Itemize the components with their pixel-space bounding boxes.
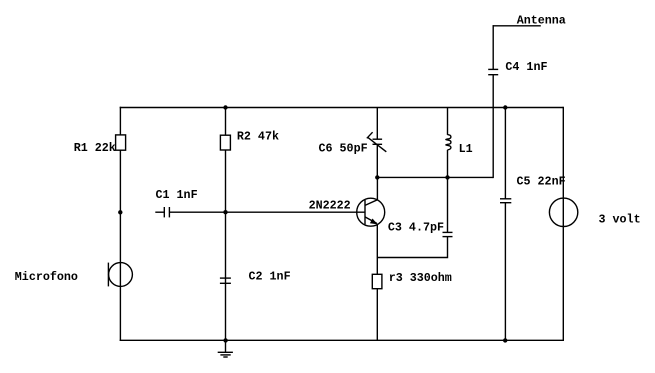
- junction node on left rail: [118, 210, 122, 214]
- svg-text:Antenna: Antenna: [517, 13, 566, 27]
- junction C1 wire / R2 branch: [223, 210, 227, 214]
- transistor Q1 2N2222: [357, 177, 385, 274]
- svg-text:C6 50pF: C6 50pF: [319, 141, 368, 155]
- wire: C6 to LC node: [376, 144, 378, 178]
- battery B1 3 volt: [549, 198, 577, 226]
- svg-text:Microfono: Microfono: [15, 270, 78, 284]
- wire: C3 down and left to emitter: [377, 237, 447, 258]
- resistor R1: [116, 135, 126, 150]
- junction bottom rail / C5: [503, 338, 507, 342]
- svg-text:R1 22k: R1 22k: [74, 141, 116, 155]
- wire: bottom ground rail: [120, 339, 564, 341]
- capacitor C4: [488, 69, 498, 74]
- junction LC node left: [375, 175, 379, 179]
- junction top rail / C5 branch: [503, 105, 507, 109]
- svg-text:C3 4.7pF: C3 4.7pF: [388, 220, 444, 234]
- svg-text:C1 1nF: C1 1nF: [156, 188, 198, 202]
- wire: left rail: [119, 107, 121, 341]
- junction LC node right: [445, 175, 449, 179]
- ground: [218, 340, 233, 357]
- wire: C5 branch: [504, 108, 506, 199]
- capacitor C2: [220, 278, 231, 283]
- wire: C1 to transistor base: [169, 211, 365, 213]
- junction bottom rail / ground: [223, 338, 227, 342]
- wire: top supply rail: [120, 107, 564, 109]
- wire: C6 branch from top rail: [376, 108, 378, 140]
- capacitor C1: [155, 207, 169, 217]
- wire: antenna horizontal: [493, 25, 541, 27]
- svg-text:C2 1nF: C2 1nF: [249, 270, 291, 284]
- inductor L1: [446, 135, 451, 150]
- svg-text:r3 330ohm: r3 330ohm: [389, 271, 452, 285]
- svg-text:C5 22nF: C5 22nF: [517, 174, 566, 188]
- svg-text:2N2222: 2N2222: [309, 199, 351, 213]
- variable capacitor C6: [367, 132, 387, 152]
- resistor R3: [372, 274, 382, 288]
- svg-text:3 volt: 3 volt: [599, 213, 641, 227]
- wire: L1 branch from top rail: [447, 108, 449, 135]
- svg-text:R2 47k: R2 47k: [237, 129, 279, 143]
- wire: C5 to bottom rail: [504, 203, 506, 341]
- wire: LC node down to C3: [447, 177, 449, 232]
- capacitor C5: [500, 199, 511, 203]
- microphone MIC Microfono: [108, 263, 132, 287]
- wire: r3 to bottom rail: [376, 289, 378, 341]
- wire: LC node horizontal: [377, 176, 493, 178]
- wire: right battery branch: [562, 107, 564, 341]
- wire: C4 down to LC node (crosses top rail): [492, 75, 494, 178]
- wire: R2 branch vertical: [225, 108, 227, 341]
- wire: antenna down to C4: [492, 25, 494, 69]
- junction top rail / R2 branch: [223, 105, 227, 109]
- resistor R2: [220, 135, 230, 150]
- svg-text:C4 1nF: C4 1nF: [505, 60, 547, 74]
- capacitor C3: [443, 232, 453, 236]
- svg-text:L1: L1: [459, 142, 473, 156]
- wire: L1 to LC node: [447, 150, 449, 178]
